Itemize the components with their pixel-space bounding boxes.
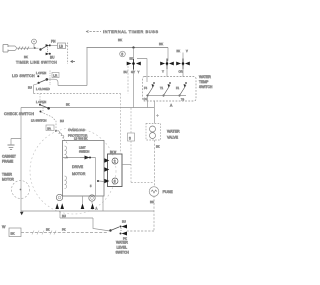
- svg-text:BU: BU: [28, 86, 32, 90]
- text CABINET FRAME: [2, 155, 16, 164]
- svg-text:BK: BK: [24, 55, 28, 59]
- text WATER LEVEL SWITCH: [116, 241, 130, 255]
- motor internal contact lower: [97, 180, 104, 182]
- wire motor box right drop to bus: [102, 196, 104, 211]
- terminal cluster T1 (quick connects): [127, 59, 141, 70]
- motor winding upper: [65, 146, 68, 159]
- fuse 3A boxed label: [46, 125, 54, 131]
- temp switch contact S2: [163, 82, 171, 96]
- plus tick on valve wire: [156, 114, 159, 117]
- wire motor bottom to arrow: [83, 196, 93, 204]
- terminal cluster T3: [176, 59, 190, 70]
- svg-text:3A: 3A: [47, 127, 51, 131]
- svg-text:BU: BU: [122, 220, 126, 224]
- wire H4 to bus riser: [58, 85, 87, 87]
- drive motor box: [63, 141, 105, 197]
- svg-text:PK: PK: [62, 228, 66, 232]
- svg-text:SWITCH: SWITCH: [116, 251, 130, 255]
- svg-text:WATER: WATER: [167, 130, 180, 134]
- dashed drop right of connector: [131, 108, 154, 183]
- svg-text:A: A: [96, 207, 98, 211]
- svg-text:BK: BK: [150, 200, 154, 204]
- svg-text:C4: C4: [144, 97, 148, 101]
- svg-text:FUSE: FUSE: [163, 190, 174, 194]
- text WATER VALVE: [167, 130, 180, 140]
- neutral wire dashed with hatches: [21, 228, 108, 235]
- svg-text:OVERLOAD: OVERLOAD: [68, 128, 86, 132]
- wire T2 down into temp switch: [166, 66, 168, 77]
- wire to water valve: [154, 101, 156, 124]
- svg-text:3: 3: [129, 136, 131, 140]
- boundary arrow: [71, 60, 76, 62]
- svg-text:BK: BK: [66, 103, 70, 107]
- circled 5 annotation: [120, 51, 126, 57]
- connector arrows under M: [55, 203, 64, 209]
- wire H5 down to check switch: [39, 94, 41, 104]
- wire lid closed contact down to H5: [34, 84, 39, 94]
- inline connector box bottom left: [9, 228, 21, 237]
- internal timer buss wire H3: [87, 47, 169, 49]
- drive motor dashed circle: [30, 128, 116, 214]
- circled connector A: [89, 195, 95, 201]
- svg-text:OR: OR: [179, 70, 183, 74]
- svg-text:CHECK SWITCH: CHECK SWITCH: [4, 112, 34, 116]
- svg-text:BK: BK: [130, 57, 134, 61]
- temp switch contact S3: [179, 82, 187, 96]
- svg-text:TIMER LINE SWITCH: TIMER LINE SWITCH: [16, 61, 57, 65]
- svg-text:MOTOR: MOTOR: [72, 172, 86, 176]
- wire corner to water level switch: [127, 230, 154, 232]
- wire bus drop to terminal T1: [133, 48, 135, 60]
- svg-text:LIMIT: LIMIT: [79, 146, 86, 150]
- wire lid sw pivot to H4: [48, 79, 58, 85]
- svg-text:CABINET: CABINET: [2, 155, 16, 159]
- internal timer buss label with arrow: [86, 29, 159, 34]
- svg-text:WATER: WATER: [199, 75, 211, 79]
- wire fuse down: [153, 196, 155, 231]
- stub and labels above T3: [182, 53, 184, 59]
- text DRIVE MOTOR: [72, 165, 86, 176]
- svg-text:BU: BU: [60, 119, 64, 123]
- svg-text:Y: Y: [162, 70, 164, 74]
- node C4 drop to H6: [147, 96, 149, 108]
- svg-text:LB: LB: [59, 45, 63, 49]
- svg-text:BU: BU: [124, 70, 128, 74]
- connector entry arrows middle: [104, 167, 109, 171]
- svg-text:TIMER: TIMER: [2, 173, 13, 177]
- svg-text:2: 2: [114, 160, 116, 164]
- water temp switch box: [143, 77, 197, 102]
- left rail down: [20, 108, 22, 212]
- motor inner wire: [63, 158, 96, 197]
- svg-text:WATER: WATER: [116, 241, 128, 245]
- svg-text:5: 5: [121, 53, 123, 57]
- svg-text:BU: BU: [50, 56, 55, 60]
- wire plug to switch: [31, 44, 39, 48]
- wire T3 down into temp switch: [182, 66, 184, 77]
- text TIMER MOTOR: [2, 173, 15, 182]
- svg-text:L OPEN: L OPEN: [36, 71, 46, 75]
- text WATER TEMP SWITCH: [199, 75, 213, 89]
- overload heater coil: [55, 130, 68, 144]
- svg-text:LID SWITCH: LID SWITCH: [12, 74, 35, 78]
- cabinet ground: [8, 145, 15, 150]
- svg-text:BK: BK: [159, 42, 163, 46]
- wire T1 right to temp switch: [137, 59, 147, 83]
- svg-text:W: W: [2, 225, 6, 229]
- lid switch: [37, 71, 50, 86]
- svg-text:TEMP: TEMP: [199, 80, 209, 84]
- node J1 on bus: [132, 46, 134, 48]
- junction arrow at rail corner: [20, 212, 24, 215]
- svg-text:BK: BK: [46, 228, 50, 232]
- svg-text:BU: BU: [62, 214, 66, 218]
- cord junction circle: [32, 39, 37, 44]
- check switch: [39, 103, 50, 113]
- dashed circle connector on left wire: [12, 181, 30, 199]
- svg-text:BK: BK: [11, 232, 15, 236]
- motor winding lower: [65, 176, 67, 189]
- svg-text:8: 8: [114, 180, 116, 184]
- svg-text:LEVEL: LEVEL: [117, 246, 128, 250]
- wire bus corner to T2: [167, 61, 168, 62]
- connector arrows under A: [81, 203, 95, 209]
- buss H6: [21, 107, 154, 109]
- bottom bus wire: [21, 210, 154, 212]
- connector pin circled 2: [112, 158, 118, 164]
- water level switch: [109, 225, 127, 236]
- water valve: [146, 124, 161, 141]
- timer boundary dashed line: [67, 43, 69, 65]
- circled connector M: [56, 194, 62, 200]
- svg-text:LR SWITCH: LR SWITCH: [31, 119, 46, 123]
- svg-text:BK: BK: [177, 49, 181, 53]
- svg-text:GY: GY: [131, 70, 135, 74]
- ground stub: [11, 139, 21, 145]
- connector entry arrows lower: [104, 179, 109, 183]
- wire motor box to middle arrow: [103, 169, 106, 171]
- svg-text:V: V: [186, 49, 188, 53]
- svg-text:PN: PN: [51, 40, 56, 44]
- boxed wire label LR: [52, 73, 59, 78]
- motor internal contact upper: [80, 156, 91, 160]
- svg-text:FRAME: FRAME: [2, 160, 13, 164]
- terminal cluster T2: [160, 59, 174, 70]
- temp switch contact S1: [147, 82, 155, 96]
- svg-text:DRIVE: DRIVE: [72, 165, 84, 169]
- wire connector box right to dashed riser: [122, 164, 131, 166]
- connector pin circled 8: [112, 178, 118, 184]
- dashed drop H5 to connector block: [120, 94, 122, 154]
- svg-text:L CLOSED: L CLOSED: [36, 87, 50, 91]
- svg-text:SWITCH: SWITCH: [199, 85, 213, 89]
- svg-text:INTERNAL TIMER BUSS: INTERNAL TIMER BUSS: [103, 29, 159, 34]
- power plug P1: [3, 45, 17, 53]
- svg-text:Y: Y: [138, 70, 140, 74]
- svg-text:LB WH BK: LB WH BK: [74, 137, 88, 141]
- svg-text:MOTOR: MOTOR: [2, 178, 15, 182]
- svg-text:L OPEN: L OPEN: [36, 100, 46, 104]
- text OVERLOAD PROTECTOR: [68, 128, 88, 138]
- power cord with hatch marks: [17, 47, 31, 50]
- text LIMIT SWITCH inside motor: [79, 146, 89, 154]
- small box 3 right: [128, 133, 135, 141]
- wire valve down to fuse: [154, 140, 156, 187]
- dashed buss H5: [34, 93, 121, 95]
- wire T1 center leg down: [133, 70, 135, 108]
- wire bus corner drop x=168: [167, 48, 169, 61]
- wire switch to timer boundary: [51, 44, 68, 46]
- wire check sw lower to overload: [41, 112, 56, 131]
- wire bus down to lid switch V1: [86, 48, 88, 86]
- boxed wire label LB: [58, 43, 66, 49]
- connector block box: [108, 154, 123, 187]
- svg-text:BK: BK: [156, 145, 160, 149]
- wire T1 left leg down: [127, 66, 129, 94]
- svg-text:BK: BK: [118, 38, 122, 42]
- temp switch bottom bus: [148, 95, 187, 97]
- timer line switch SW1: [39, 44, 51, 55]
- svg-text:VALVE: VALVE: [167, 136, 179, 140]
- fuse F1: [149, 187, 159, 197]
- connector entry arrows upper: [104, 158, 109, 162]
- wire drop to BU branch: [60, 211, 110, 231]
